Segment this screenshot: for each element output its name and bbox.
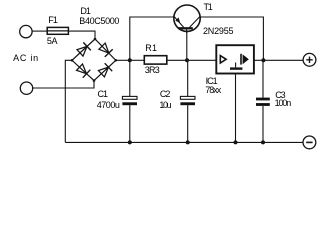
wire C2 to rail <box>187 105 189 142</box>
resistor R1 <box>144 56 167 64</box>
node base junction <box>185 58 189 62</box>
diode D1d <box>98 63 112 77</box>
wire output node down to C3 <box>262 60 264 97</box>
AC input terminal (bottom) <box>20 82 32 94</box>
node output junction <box>261 58 265 62</box>
capacitor C2 <box>180 96 195 105</box>
label C1 <box>98 90 108 99</box>
wire bottom terminal to bridge bottom corner <box>33 81 94 88</box>
diode D1a <box>77 42 91 56</box>
label B40C5000 <box>79 17 119 26</box>
wire terminal to fuse <box>32 30 47 32</box>
output terminal plus <box>303 53 316 66</box>
capacitor C1 <box>122 96 137 105</box>
label 2N2955 <box>203 27 233 36</box>
wire main node down to C1 <box>129 60 131 96</box>
node rail C2 <box>186 140 190 144</box>
wire bridge left corner down to 0V rail <box>65 60 72 142</box>
wire C3 to rail <box>262 106 264 142</box>
node main + junction <box>128 58 132 62</box>
wire IC1 output to + terminal <box>254 59 303 61</box>
AC input terminal (top) <box>20 25 32 37</box>
wire C1 to rail <box>129 105 131 142</box>
wire base node down to C2 <box>187 60 189 96</box>
diode D1b <box>99 43 113 57</box>
label T1 <box>204 3 212 12</box>
label 4700u <box>97 101 120 110</box>
wire main node up and over to T1 emitter <box>130 17 174 60</box>
node rail C3 <box>261 140 265 144</box>
label 78xx <box>205 86 220 95</box>
label 100n <box>275 99 291 108</box>
capacitor C3 <box>256 98 270 106</box>
label AC in <box>13 54 39 63</box>
label 10u <box>159 101 170 110</box>
node rail IC1 ground <box>234 140 238 144</box>
wire bridge right corner to main node <box>116 59 130 61</box>
label F1 <box>48 16 57 25</box>
wire T1 base down to base node <box>186 31 188 60</box>
label R1 <box>145 44 157 53</box>
diode D1c <box>77 64 91 78</box>
voltage regulator IC1 <box>216 45 254 73</box>
transistor T1 <box>174 5 200 33</box>
wire main node to R1 <box>130 59 145 61</box>
fuse F1 <box>47 27 68 34</box>
label IC1 <box>206 77 217 86</box>
wire R1 to IC1 input <box>167 59 217 61</box>
node rail C1 <box>128 140 132 144</box>
bridge rectifier D1 diamond <box>72 39 116 81</box>
label 3R3 <box>145 66 159 75</box>
label 5A <box>47 37 57 46</box>
wire IC1 ground pin to rail <box>235 74 237 143</box>
0V rail <box>65 141 303 143</box>
label C2 <box>160 90 170 99</box>
wire T1 collector to output corner <box>200 17 263 60</box>
label D1 <box>80 7 90 16</box>
node dots on bridge corners <box>71 38 117 82</box>
wire fuse to bridge top <box>68 31 95 39</box>
output terminal minus <box>303 136 316 149</box>
label C3 <box>275 91 285 100</box>
